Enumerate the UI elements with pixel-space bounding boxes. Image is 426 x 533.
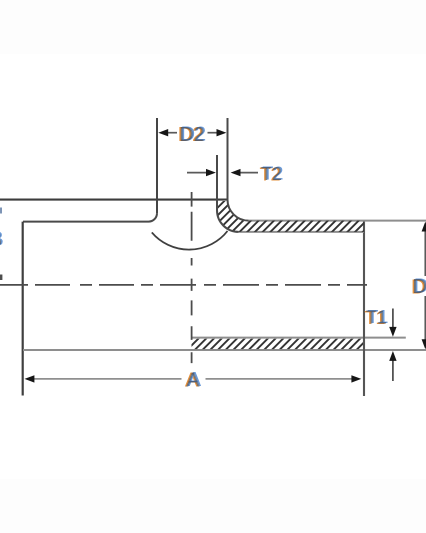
wire: upper horizontal line ending at branch outer wall: [0, 199, 227, 201]
branch right inner wall with bend / T2 extension: [217, 155, 239, 232]
svg-text:A: A: [186, 369, 200, 391]
top wall inner line: [239, 231, 364, 233]
A dimension line right + arrowhead: [206, 375, 362, 382]
top faint strip: [0, 0, 426, 54]
D2 dimension line left + arrowhead: [158, 129, 177, 136]
label T2: [259, 164, 283, 185]
T2 dimension line right + arrowhead: [231, 169, 258, 176]
label D2: [178, 123, 206, 146]
svg-text:D: D: [412, 276, 426, 298]
svg-text:D2: D2: [179, 124, 205, 146]
D2 dimension line right + arrowhead: [208, 129, 227, 136]
right end face / A right extension: [363, 221, 365, 396]
svg-text:T1: T1: [366, 308, 387, 328]
run horizontal dash-dot centerline: [0, 284, 367, 286]
bottom faint strip: [0, 479, 426, 533]
T2 dimension line left + arrowhead: [187, 169, 216, 176]
run pipe inner bottom line / T1 extension: [192, 337, 406, 339]
run pipe outer top-left with fillet into branch left wall: [23, 213, 157, 222]
saddle arc (branch-run intersection curve): [152, 231, 228, 250]
label T1: [364, 307, 388, 328]
top wall / branch bend hatching: [181, 195, 408, 237]
label B (clipped at left edge): [0, 229, 4, 252]
run pipe outer bottom line / D extension: [23, 349, 426, 351]
left end face / A left extension: [22, 222, 24, 396]
D dimension bottom arrow: [422, 296, 426, 349]
B dimension slivers at left edge: [0, 208, 2, 281]
D dimension vertical line at right edge, top arrow: [422, 222, 426, 276]
svg-text:T2: T2: [261, 164, 282, 184]
T1 top arrow (down): [389, 309, 396, 337]
branch left outer wall / D2 left extension: [156, 118, 158, 213]
bottom wall hatching: [186, 337, 378, 351]
label A: [185, 369, 202, 392]
branch right outer wall with bend: [227, 118, 248, 221]
branch vertical dashed centerline: [191, 192, 193, 363]
label D (clipped at right edge): [411, 275, 426, 298]
T1 bottom arrow (up): [389, 351, 396, 381]
top wall outer line / D extension: [249, 220, 426, 222]
A dimension line left + arrowhead: [25, 375, 182, 382]
svg-text:B: B: [0, 229, 2, 251]
